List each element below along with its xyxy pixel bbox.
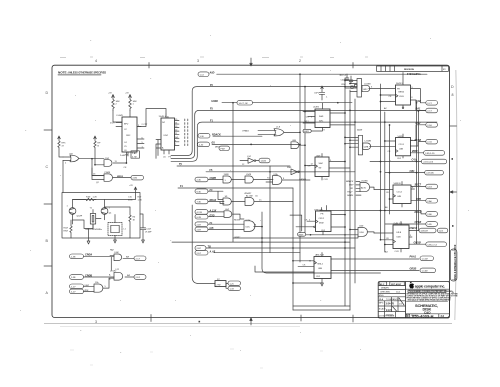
zone tick left y=130	[44, 129, 52, 131]
svg-text:L4Ø: L4Ø	[225, 209, 229, 211]
svg-text:542Ø: 542Ø	[357, 128, 362, 131]
svg-text:SDC7: SDC7	[415, 184, 422, 187]
connector oval 4-13X	[195, 210, 224, 215]
+5V arrow osc	[129, 185, 137, 192]
flip-flop U3B f5	[384, 134, 414, 160]
svg-text:EPA61: EPA61	[243, 129, 249, 132]
ground symbol C16	[142, 240, 145, 243]
svg-text:EF2Ø: EF2Ø	[415, 139, 421, 142]
svg-text:7-3D: 7-3D	[197, 202, 202, 204]
svg-text:H0Ø2: H0Ø2	[212, 100, 219, 103]
wire AA5 net y252.7	[214, 252, 300, 254]
svg-text:050-4009-H: 050-4009-H	[412, 314, 434, 319]
svg-text:BGB: BGB	[128, 200, 133, 202]
svg-text:TB: TB	[208, 246, 211, 249]
svg-text:RDACK: RDACK	[212, 133, 221, 136]
output RA0: wire, label, oval 2-C7	[416, 100, 438, 105]
connector oval 6-2B E7B	[195, 214, 224, 219]
output SDC7: wire, label, oval 4-D4	[411, 184, 438, 189]
svg-text:DRAWN: DRAWN	[381, 287, 389, 290]
wire long net y244.5	[172, 241, 350, 243]
scan specks top	[60, 56, 368, 59]
svg-text:UØB: UØB	[364, 147, 369, 149]
svg-text:L5Ø8: L5Ø8	[246, 174, 252, 176]
svg-text:CF1/2: CF1/2	[319, 218, 326, 220]
wire vertical x300	[299, 74, 301, 262]
inductor L1 dashed box	[108, 215, 127, 244]
svg-text:1.5K: 1.5K	[138, 200, 143, 202]
connector oval 2-D2 after gate g10	[125, 275, 146, 280]
svg-text:CC: CC	[124, 129, 128, 131]
svg-text:2-D5,B5: 2-D5,B5	[426, 173, 434, 175]
wire vertical x270	[269, 166, 271, 253]
svg-text:U6B: U6B	[318, 268, 323, 270]
svg-text:+2V: +2V	[129, 185, 133, 187]
zone tick bottom x=353	[352, 315, 354, 322]
and-gate g3b on 01 line	[291, 140, 306, 149]
label C15 BGB	[128, 197, 142, 202]
and-gate g1	[223, 174, 245, 183]
resistor R5 10K	[129, 98, 138, 111]
svg-text:PHA1: PHA1	[410, 256, 417, 259]
svg-text:4: 4	[95, 59, 97, 63]
flip-flop U4A f6	[374, 182, 415, 208]
svg-text:L4B: L4B	[69, 153, 73, 155]
svg-text:TRQ7: TRQ7	[347, 191, 353, 193]
flip-flop U7 f2	[290, 206, 346, 235]
svg-text:9NØ: 9NØ	[287, 167, 292, 169]
wire H002 net y102.7	[222, 102, 352, 104]
junction dot x355	[354, 121, 356, 123]
title block legal text	[407, 290, 459, 301]
svg-text:54Ø8 B: 54Ø8 B	[394, 183, 402, 185]
connector oval GM05 under f8	[303, 129, 311, 133]
and-gate g13b	[92, 172, 113, 184]
and-gate g6 ALTA	[245, 195, 293, 206]
svg-text:U Ø: U Ø	[247, 156, 251, 158]
connector oval 2-B7 IA5	[195, 227, 244, 232]
+5V arrow pullup R5	[125, 93, 131, 98]
svg-text:R9Ø: R9Ø	[64, 231, 69, 233]
svg-text:THIS DRAWING CONTAINS PROPRIET: THIS DRAWING CONTAINS PROPRIETARY INFORM…	[409, 290, 453, 293]
connector oval 1-33	[228, 286, 241, 290]
connector oval 1-14 ADD	[198, 72, 209, 77]
wire vertical x416.5 right column	[416, 103, 418, 244]
wire R4 to U1	[113, 111, 122, 123]
wire T5 net y166	[177, 165, 290, 167]
svg-text:PR: PR	[321, 214, 324, 216]
svg-text:54Ø9.5: 54Ø9.5	[396, 83, 404, 85]
resistor RP2 with +5V	[94, 136, 104, 166]
svg-text:BØ: BØ	[126, 256, 129, 258]
svg-text:GMØ5: GMØ5	[347, 195, 354, 197]
svg-text:CLR: CLR	[324, 179, 329, 181]
svg-text:1Ø: 1Ø	[162, 122, 165, 124]
svg-text:RD5W: RD5W	[234, 219, 240, 221]
scan page edge shadow right	[455, 70, 457, 320]
svg-text:M2Ø: M2Ø	[319, 223, 324, 225]
wire lower trunk x192 to R7	[192, 205, 215, 284]
output PHA1: label, oval 1-C2	[410, 256, 434, 261]
connector oval GM05 under f2	[298, 233, 359, 237]
svg-text:5ØC: 5ØC	[319, 121, 324, 123]
svg-text:C5F1: C5F1	[314, 93, 320, 95]
svg-text:1Ø: 1Ø	[175, 137, 178, 139]
svg-text:9Ø: 9Ø	[319, 168, 322, 170]
output GM10 wide oval 4-B5,2-C4	[409, 241, 447, 246]
svg-text:ØPØ: ØPØ	[412, 150, 418, 153]
capacitor C16	[140, 214, 152, 240]
boxed ref label 2-A3 4.70 under U1	[131, 151, 139, 159]
svg-text:CHECKED: CHECKED	[380, 292, 391, 294]
wire RDACK net y136	[213, 135, 262, 137]
svg-text:BØACK: BØACK	[346, 180, 354, 183]
flip-flop U6 f1	[304, 154, 350, 181]
svg-text:ØRD: ØRD	[215, 147, 220, 149]
connector oval 2-B6 after gate g13b	[113, 175, 144, 180]
svg-text:RA1: RA1	[416, 108, 422, 111]
svg-text:2-B5,5-D5: 2-B5,5-D5	[425, 153, 435, 155]
wire y306 bottom mid	[293, 305, 350, 307]
output EF20: wire, label, oval 2-C6	[411, 139, 438, 146]
output CP10: wire, label, oval 5-B5	[385, 221, 438, 226]
svg-text:27Ø: 27Ø	[217, 284, 221, 286]
and-gate g5	[223, 196, 245, 205]
wire F1 net y188	[178, 187, 293, 189]
zone dot right y=226	[452, 225, 454, 227]
svg-text:ØRDX: ØRDX	[117, 176, 124, 178]
junction dot x345	[344, 86, 346, 88]
wire loop y273 trunk x262	[262, 212, 381, 273]
svg-text:8-3D: 8-3D	[197, 191, 202, 193]
transistor Q2	[94, 200, 112, 220]
wire Q2 collector to R16	[105, 206, 131, 208]
svg-text:⟨AM 2Q7⟩: ⟨AM 2Q7⟩	[315, 254, 324, 257]
svg-text:8: 8	[452, 93, 454, 97]
svg-text:CP1Ø: CP1Ø	[415, 221, 422, 224]
svg-text:PØ5: PØ5	[416, 198, 422, 201]
title block outline	[378, 282, 449, 319]
wire vertical x305	[304, 87, 306, 235]
svg-text:9HØ: 9HØ	[319, 116, 324, 118]
svg-text:F4Ø: F4Ø	[115, 252, 119, 254]
output C45: wire, label, oval 2-D5	[370, 159, 447, 164]
or-gate g12	[63, 153, 104, 175]
svg-text:UDC: UDC	[246, 227, 251, 229]
wire vertical x293	[292, 188, 294, 310]
wire g13b input vertical	[91, 168, 93, 179]
svg-text:TOLERANCE: TOLERANCE	[386, 298, 399, 301]
svg-text:RD: RD	[350, 188, 354, 190]
connector oval 7-3D RDA2	[195, 199, 224, 204]
connector oval CR0B far left	[70, 274, 115, 279]
svg-text:⟨2⟩: ⟨2⟩	[163, 156, 166, 159]
svg-text:A0D: A0D	[209, 71, 215, 74]
wire R7 to ovals	[226, 284, 228, 289]
svg-text:L54Ø9: L54Ø9	[117, 115, 124, 117]
svg-text:AL13Ø: AL13Ø	[246, 195, 253, 198]
svg-text:2 CTT: 2 CTT	[142, 124, 149, 126]
and-gate g10	[109, 269, 123, 281]
zone centering arrow top	[250, 58, 252, 66]
wire U1 pin to gate junction CK	[124, 152, 128, 169]
svg-text:4.7Ø: 4.7Ø	[132, 156, 137, 158]
and-gate g16	[344, 135, 395, 155]
junction dot y244.5/x345	[344, 241, 346, 243]
junction dot y238/x262	[261, 237, 263, 239]
svg-text:4-B5,B7: 4-B5,B7	[421, 231, 429, 233]
inverter U6a before f1	[287, 167, 315, 175]
svg-text:REVISION: REVISION	[404, 69, 414, 71]
connector oval 2-30 01	[198, 142, 216, 147]
svg-text:A.A5: A.A5	[209, 250, 216, 253]
svg-text:U9H: U9H	[360, 232, 365, 234]
junction dot x388	[389, 124, 391, 126]
svg-text:1MC: 1MC	[126, 135, 131, 137]
svg-text:GMØ5: GMØ5	[298, 234, 303, 236]
connector oval DRL far left	[70, 289, 95, 294]
svg-text:2: 2	[299, 59, 301, 63]
svg-text:3-24-78: 3-24-78	[386, 303, 395, 306]
flip-flop U4B f7	[374, 222, 412, 254]
and-gate g4 USA	[266, 173, 310, 185]
wire crystal row	[73, 219, 102, 229]
svg-text:CØL5TØPHVMHz: CØL5TØPHVMHz	[85, 229, 103, 231]
junction dot x270	[269, 171, 271, 173]
svg-text:2DC+1: 2DC+1	[340, 75, 347, 77]
and-gate g13a	[104, 158, 126, 166]
title block left grid rows	[378, 286, 405, 318]
title block bottom row	[406, 314, 450, 319]
svg-text:UØC: UØC	[363, 89, 368, 91]
svg-text:1.2K: 1.2K	[93, 197, 98, 199]
resistor RP1 with +5V	[58, 136, 67, 157]
zone tick bottom x=301	[300, 315, 302, 321]
svg-text:ALTD: ALTD	[361, 187, 367, 190]
svg-text:U4B: U4B	[399, 149, 404, 151]
junction dot x383	[384, 121, 386, 123]
svg-text:1-CØ2: 1-CØ2	[422, 271, 429, 273]
wire vertical x388	[389, 125, 391, 214]
output CP1: wire, label, oval 2-D5	[385, 170, 444, 175]
svg-text:3: 3	[95, 320, 97, 324]
svg-text:U3.B: U3.B	[399, 96, 404, 98]
junction dot y244.5/x262	[261, 241, 263, 243]
wire U1 CC pin to U2 top	[137, 109, 166, 127]
wire ADD7 net y74	[217, 73, 427, 75]
svg-text:CLR: CLR	[397, 158, 402, 160]
svg-text:3: 3	[197, 59, 199, 63]
capacitor row IDC	[340, 74, 358, 88]
zone tick bottom x=151	[150, 315, 152, 322]
svg-text:U4B: U4B	[397, 237, 402, 239]
transistor Q1	[67, 200, 85, 221]
svg-text:2-9-5: 2-9-5	[386, 309, 392, 312]
svg-text:PR: PR	[397, 89, 400, 91]
connector oval 2-C7 after gate g9	[123, 256, 146, 261]
svg-text:GM1Ø: GM1Ø	[414, 241, 421, 244]
and-gate g18	[344, 226, 374, 237]
output CAS wide oval 2-B5 5-D5	[411, 150, 445, 155]
svg-text:C6Ø: C6Ø	[359, 226, 364, 228]
svg-text:CRØ: CRØ	[341, 84, 346, 86]
svg-text:C1C4: C1C4	[397, 192, 403, 194]
svg-text:U6B: U6B	[292, 140, 297, 142]
wire vertical x383	[384, 112, 386, 252]
svg-text:13Ø: 13Ø	[105, 158, 109, 160]
svg-text:CM2.B: CM2.B	[410, 227, 418, 230]
flip-flop U8 f3	[292, 253, 331, 287]
svg-text:U5A: U5A	[274, 173, 279, 176]
svg-text:Ø.1ØF: Ø.1ØF	[145, 232, 152, 234]
svg-text:S4Ø: S4Ø	[319, 163, 324, 165]
wire F5 net y171.8	[206, 171, 355, 173]
svg-text:+5V: +5V	[108, 93, 112, 95]
wire bus 05b with corner trunk x194.7	[171, 110, 433, 158]
resistor R4 10K	[112, 98, 121, 111]
svg-text:U2Ø: U2Ø	[164, 135, 169, 137]
svg-text:L32M: L32M	[245, 220, 250, 222]
svg-text:DISK II INTERFACE 050-4009: DISK II INTERFACE 050-4009	[453, 244, 457, 280]
ground symbol osc center	[87, 229, 90, 245]
wire R5 to U1 top	[129, 111, 131, 118]
inverter g13 mid	[240, 156, 256, 166]
connector oval 1-25	[228, 281, 241, 285]
capacitor C5F1	[314, 86, 328, 100]
svg-text:DRLØ: DRLØ	[415, 211, 422, 214]
IC U2 right pin fanout	[175, 119, 188, 146]
svg-text:14-B5: 14-B5	[261, 161, 267, 163]
svg-text:⟨3Ø⟩: ⟨3Ø⟩	[316, 154, 321, 157]
and-gate g8 UDC	[234, 219, 263, 231]
svg-text:2+A3: 2+A3	[120, 154, 126, 157]
and-gate g7	[224, 209, 244, 219]
svg-text:NOTE:: NOTE:	[58, 71, 68, 75]
title block small header box 1	[379, 282, 387, 286]
connector oval CR0A far left	[70, 254, 115, 259]
resistor R9 vertical	[64, 220, 73, 238]
junction dot x418.4/RA1	[418, 110, 420, 112]
scan dust specks	[20, 35, 469, 353]
zone centering arrow right	[450, 191, 457, 193]
svg-text:CLR: CLR	[316, 276, 321, 278]
wire vertical x418.4 right column	[417, 111, 419, 231]
svg-text:ENG: ENG	[379, 295, 384, 297]
wire vertical x345	[344, 78, 346, 306]
svg-text:Q1ØF: Q1ØF	[77, 216, 83, 218]
svg-text:CØ1: CØ1	[410, 170, 416, 173]
svg-text:D: D	[46, 91, 49, 95]
svg-text:13Ø8: 13Ø8	[224, 174, 230, 176]
junction dot x300	[299, 144, 301, 146]
junction dot x350	[349, 110, 351, 112]
svg-text:U4B: U4B	[397, 196, 402, 198]
wire vertical x355	[354, 99, 356, 283]
and-gate g17 with input name column	[346, 180, 374, 197]
wire long net y238	[233, 236, 358, 238]
svg-text:4-B5,2-C4: 4-B5,2-C4	[427, 244, 437, 246]
connector oval 2-3D C605	[195, 177, 223, 182]
junction dot y283/x293	[292, 282, 294, 284]
svg-text:L32ØB: L32ØB	[361, 181, 368, 183]
svg-text:2-3B: 2-3B	[71, 277, 76, 279]
connector oval U6B far left	[70, 284, 95, 289]
connector oval 2-B7 F1	[195, 222, 244, 227]
svg-text:6-2B: 6-2B	[197, 217, 202, 219]
junction dot y144.4	[250, 144, 252, 146]
svg-text:2-3D: 2-3D	[197, 180, 202, 182]
resistor R16 1K vertical	[129, 207, 136, 238]
wire y310 bottom mid	[293, 309, 350, 311]
svg-text:⟨4.Ø9⟩: ⟨4.Ø9⟩	[313, 106, 319, 109]
flip-flop U3A f4	[380, 73, 421, 109]
svg-text:BØ: BØ	[127, 275, 130, 277]
resistor R10 1.2K top	[84, 197, 97, 201]
svg-text:14-C7,1Ø: 14-C7,1Ø	[239, 103, 248, 105]
wire f3 to GR2B oval	[331, 269, 419, 271]
svg-text:L22ØB: L22ØB	[365, 140, 372, 142]
svg-text:C2C4: C2C4	[399, 144, 405, 146]
output DRL0: wire, label, oval 2-B6	[320, 210, 438, 217]
wire bus 05 with corner trunk x192	[171, 87, 357, 156]
wire vertical x350	[349, 90, 351, 310]
zone tick right y=126	[450, 125, 457, 127]
svg-text:4-13X: 4-13X	[197, 212, 203, 214]
wire TB net y248	[206, 247, 355, 249]
svg-text:D: D	[451, 85, 454, 89]
+5V arrow pullup R4	[108, 93, 114, 98]
output RA1: wire, label, oval 2-C7	[411, 100, 438, 113]
oscillator enclosure box	[62, 193, 140, 239]
svg-text:GMØ5: GMØ5	[304, 131, 309, 133]
svg-text:+5V: +5V	[125, 93, 129, 95]
output RA2: wire, label, oval 2-D6	[411, 122, 438, 141]
svg-text:UNLESS OTHERWISE SPECIFIED: UNLESS OTHERWISE SPECIFIED	[68, 72, 106, 75]
svg-text:2-3B: 2-3B	[71, 256, 76, 258]
and-gate g9	[110, 252, 122, 271]
wire 01 net y144.4	[212, 143, 300, 145]
zone dot bottom	[199, 321, 201, 323]
wire vertical x377	[380, 84, 382, 240]
junction dot x416.5/RA0	[416, 102, 418, 104]
output PD5: wire, label, oval 2-A6	[411, 198, 438, 203]
zone dot right y=159	[452, 158, 454, 160]
wire osc top rail	[73, 193, 136, 200]
svg-text:apple computer inc.: apple computer inc.	[415, 284, 445, 288]
drawing border frame	[52, 65, 450, 317]
wire f3 to PHA1 oval	[331, 258, 419, 260]
and-gate g11	[94, 278, 114, 292]
title block small header box 2	[390, 282, 405, 286]
svg-text:BPU: BPU	[124, 124, 129, 126]
svg-text:CLR: CLR	[321, 230, 326, 232]
svg-text:2-D5,5-D6: 2-D5,5-D6	[423, 162, 433, 164]
svg-text:MFG: MFG	[379, 302, 384, 304]
resistor R7 bottom mid	[215, 279, 226, 287]
svg-text:BETA: BETA	[399, 91, 405, 94]
svg-text:CLR: CLR	[395, 251, 400, 253]
zone tick top x=353	[352, 63, 354, 69]
revision table top right	[377, 66, 449, 71]
connector oval 8-3D F3	[195, 189, 223, 200]
and-gate g15	[344, 79, 395, 98]
svg-text:R1Ø: R1Ø	[86, 197, 91, 199]
junction dot x377	[380, 171, 382, 173]
connector oval 14-C7 on H002 line	[237, 100, 253, 105]
wire f3 left long y272	[255, 266, 314, 272]
connector oval 2-D7 AA5	[195, 250, 216, 255]
svg-text:GR2B: GR2B	[410, 268, 417, 271]
